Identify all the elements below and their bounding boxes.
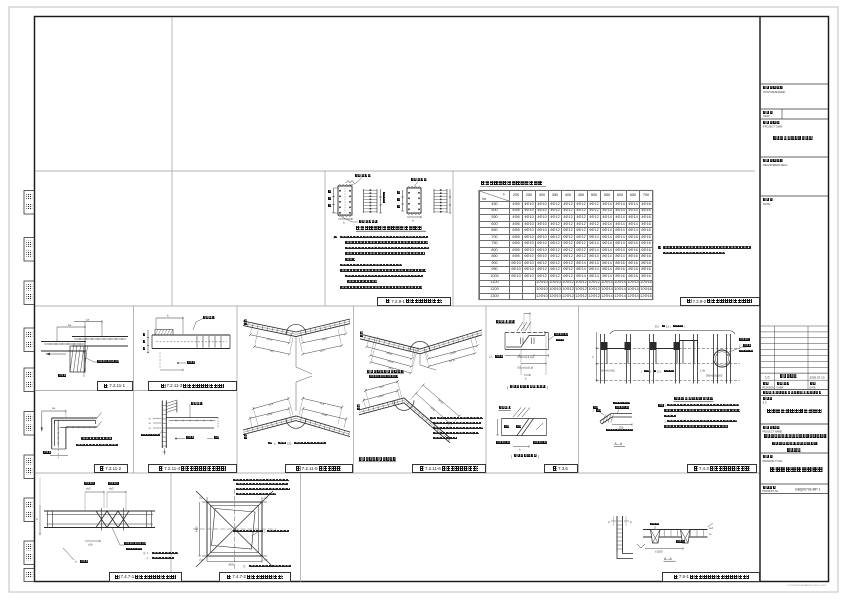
detail 7.5-1 wall section <box>616 516 618 552</box>
svg-text:(≥La): (≥La) <box>437 398 444 405</box>
grid vertical x=325 mid band <box>324 171 326 306</box>
1200 dim <box>645 548 683 550</box>
svg-text:La: La <box>86 317 90 321</box>
stirrups right part <box>196 336 198 348</box>
svg-text:A: A <box>630 520 632 524</box>
La dim top left <box>42 410 66 412</box>
dims above 7.4.7-1 <box>85 491 104 493</box>
top b dim <box>524 313 530 315</box>
svg-text:PROJECT OWN:: PROJECT OWN: <box>763 124 783 128</box>
panel 7.2.9-1 centered title underlined <box>356 230 426 232</box>
svg-text:(: ( <box>511 455 513 459</box>
hatch top right of wall <box>176 401 178 413</box>
left margin sign box 8 <box>24 498 35 522</box>
sub label lower underlined <box>359 461 397 463</box>
left margin sign box 3 <box>24 281 35 305</box>
left margin sign box 9 <box>24 541 35 565</box>
stair panel 7.2.11-6 upper valley chevron <box>360 330 482 349</box>
left margin sign box 2 <box>24 238 35 262</box>
svg-text:(: ( <box>507 386 509 390</box>
left label <box>158 430 164 435</box>
left margin sign box 10 <box>24 569 35 582</box>
svg-text:8-2: 8-2 <box>655 324 659 328</box>
svg-text:≥200: ≥200 <box>377 393 384 399</box>
svg-text:La: La <box>52 406 56 410</box>
grid vertical x=353 rows 1-2 <box>353 306 355 473</box>
first pour label underlined with hatch <box>496 323 515 325</box>
all-dims note line <box>761 394 829 396</box>
svg-text:b: b <box>412 219 414 223</box>
inner grid line horizontal y=171 <box>35 170 755 172</box>
svg-text:2.: 2. <box>147 557 149 560</box>
axis label and dashed centerline <box>57 446 59 460</box>
svg-text:A: A <box>727 353 729 357</box>
up-bent bars label underlined + hatch <box>499 409 512 411</box>
svg-text:2: 2 <box>593 410 595 413</box>
slab with anchors <box>643 529 708 531</box>
svg-text:≥200: ≥200 <box>386 351 393 356</box>
svg-text:≥200: ≥200 <box>321 336 328 341</box>
svg-text:(≥La): (≥La) <box>387 359 394 364</box>
svg-text:150: 150 <box>287 441 292 445</box>
svg-text:≥La: ≥La <box>268 401 274 406</box>
svg-text:≥Ld: ≥Ld <box>709 527 714 530</box>
svg-text:2: 2 <box>650 370 652 373</box>
left margin sign box 7 <box>24 455 35 479</box>
dims below upper detail <box>505 355 549 357</box>
right section left dims <box>402 190 404 211</box>
svg-text:La: La <box>68 323 72 327</box>
svg-text:4000: 4000 <box>196 526 199 532</box>
svg-text:L≥: L≥ <box>709 533 712 536</box>
leader from apex upper <box>295 337 297 367</box>
detail 7.2.11-4 wall with slab <box>161 401 163 449</box>
title block left edge <box>759 17 761 581</box>
panel 7.2.9-1 right beam section <box>407 188 421 213</box>
svg-text:≥200: ≥200 <box>266 337 273 342</box>
svg-text:1.4a: 1.4a <box>700 369 705 372</box>
label box 7.5-1 <box>662 572 760 582</box>
stair panel 7.2.11-5 upper valley chevron <box>243 319 350 332</box>
svg-text:50: 50 <box>149 423 152 425</box>
inner grid line horizontal y=390 left part <box>35 390 237 392</box>
7.4.3 A-A section lower left <box>600 414 632 422</box>
svg-text:≥h/2: ≥h/2 <box>86 488 91 491</box>
rebar configuration table <box>479 190 653 300</box>
dim b under left section <box>338 218 352 220</box>
leaders right of circle <box>729 347 742 352</box>
svg-text:DRAWING TITLE:: DRAWING TITLE: <box>763 460 783 463</box>
svg-text:注:: 注: <box>243 564 246 568</box>
top bar with hooks <box>55 419 96 421</box>
stair panel 7.2.11-6 lower peak chevron <box>359 398 450 438</box>
svg-text:500×(h/3)≥500: 500×(h/3)≥500 <box>706 374 723 377</box>
dim bottom 4000 <box>207 561 262 563</box>
svg-text:≥1200: ≥1200 <box>655 549 663 553</box>
leader top label <box>196 319 203 323</box>
left dim vertical 7.4.3 <box>596 332 598 382</box>
svg-text:b: b <box>167 313 169 317</box>
label box 7.2.11-1 <box>97 381 133 391</box>
svg-text:GBQ00703-MP-1: GBQ00703-MP-1 <box>795 487 821 491</box>
axis leader <box>63 548 74 560</box>
label top: beam top bars <box>356 178 362 184</box>
svg-text:2020.07.13: 2020.07.13 <box>810 375 825 379</box>
svg-text:A—A: A—A <box>664 557 672 561</box>
svg-text:A: A <box>608 520 610 524</box>
project name line 3 <box>761 452 829 454</box>
svg-text:50: 50 <box>149 428 152 430</box>
svg-text:): ) <box>547 386 548 390</box>
detail 7.2.11-2 inverted-L beam with wall drop <box>52 417 97 419</box>
svg-text:S.D: S.D <box>763 401 767 404</box>
group 2 table shape <box>654 348 680 350</box>
grid vertical x=171 bottom row <box>170 473 172 572</box>
wall inner bar <box>57 420 59 446</box>
svg-text:≥La: ≥La <box>320 348 326 353</box>
svg-text:b: b <box>525 377 527 381</box>
svg-text:h: h <box>593 355 595 359</box>
svg-text:DATE: DATE <box>810 386 817 389</box>
svg-text:(: ( <box>641 370 642 373</box>
end ticks <box>47 511 49 528</box>
dim lines above with La <box>57 326 85 328</box>
svg-text:300×(h/100): 300×(h/100) <box>601 369 615 372</box>
leader to longitudinal bars label <box>341 217 352 223</box>
left ladder diagram <box>363 189 365 213</box>
beam horizontal dashed lines <box>596 348 740 350</box>
svg-text:≥2h: ≥2h <box>88 542 93 546</box>
label box 7.2.9-2 <box>680 297 761 307</box>
svg-text:≥200: ≥200 <box>450 350 457 355</box>
svg-text:COPYRIGHT RESERVED 2020 CSCEC: COPYRIGHT RESERVED 2020 CSCEC <box>787 585 827 587</box>
svg-text:): ) <box>684 324 685 328</box>
left small dims <box>153 417 161 419</box>
detail 7.4.7-2 square opening <box>207 502 262 556</box>
bottom b dim upper detail <box>524 374 530 376</box>
svg-text:2: 2 <box>739 345 741 348</box>
sub label upper underlined <box>367 373 405 375</box>
grid vertical x=453 mid band <box>452 171 454 306</box>
detail 7.3.6 upper slab with bent bar <box>505 332 549 334</box>
wall bottom step <box>617 552 633 559</box>
svg-text:NOTE:: NOTE: <box>763 202 771 206</box>
label box 7.4.7-1 <box>109 572 182 582</box>
label box 7.2.9-1 <box>377 297 451 307</box>
svg-text:REGISTERED SEAL:: REGISTERED SEAL: <box>763 163 788 167</box>
table title underlined <box>481 181 543 185</box>
svg-text:1:1: 1:1 <box>489 356 493 359</box>
wall top dims A A <box>611 520 616 522</box>
svg-text:12 (: 12 ( <box>657 370 661 373</box>
label box 7.4.7-2 <box>219 572 291 582</box>
note right of table <box>658 246 661 248</box>
left vertical dim lower <box>497 419 499 435</box>
label box 7.2.11-5 <box>285 464 354 473</box>
label box 7.2.11-3 <box>148 381 237 391</box>
svg-text:(≥La): (≥La) <box>449 358 456 364</box>
svg-text:≥La: ≥La <box>379 384 385 389</box>
svg-text:b,: b, <box>75 561 77 564</box>
svg-text:≥200: ≥200 <box>266 411 273 416</box>
bottom leaders <box>175 438 177 440</box>
left margin sign box 4 <box>24 328 35 352</box>
anchor 1 <box>651 530 661 544</box>
X bracing center <box>96 511 107 528</box>
corner bar ticks <box>202 501 212 503</box>
A-A 200 dim <box>612 424 632 426</box>
svg-text:A: A <box>716 353 718 357</box>
svg-text:OVER: OVER <box>777 386 784 389</box>
svg-text:JOINT/DESIGNER:: JOINT/DESIGNER: <box>763 90 786 94</box>
grid vertical x=237 rows 1-2 <box>236 306 238 473</box>
bent bar in slab <box>506 336 545 348</box>
grid vertical x=133 rows 1-2 <box>133 306 135 473</box>
group 1 table shape <box>605 348 631 350</box>
panel 7.2.9-1 left beam section <box>338 186 352 215</box>
inner grid line vertical x=172 top band <box>171 17 173 306</box>
svg-text:≥h/2: ≥h/2 <box>109 488 114 491</box>
bar label <box>252 532 259 536</box>
svg-text:注: 1.: 注: 1. <box>143 551 149 555</box>
labels above anchors <box>654 526 656 530</box>
inside labels <box>536 423 543 430</box>
dim b under right section <box>407 216 421 218</box>
inner diamond bars <box>212 509 256 550</box>
svg-text:SIGN:: SIGN: <box>763 114 770 118</box>
svg-text:2: 2 <box>264 532 266 534</box>
svg-text:b: b <box>343 221 345 225</box>
group 3 pi shape <box>680 341 698 364</box>
detail 7.3.6 lower slab with cross bars <box>502 418 547 420</box>
svg-text:4000: 4000 <box>228 563 234 566</box>
svg-text:): ) <box>538 455 539 459</box>
label box 7.2.11-6 <box>412 464 486 473</box>
hatched block top-left <box>155 330 173 336</box>
dim left 4000 <box>199 502 201 556</box>
drawing title text <box>761 483 829 485</box>
axis label bottom <box>83 352 85 377</box>
cross diagonal bars <box>517 419 529 436</box>
detail 7.2.11-3 beam elevation <box>152 334 230 336</box>
svg-text:≥200: ≥200 <box>321 412 328 417</box>
grid vertical x=486 rows 1-2 <box>485 306 487 473</box>
7.4.3 beam pipes group lines <box>600 334 602 384</box>
svg-text:0.5Ln≥(Ld,La): 0.5Ln≥(Ld,La) <box>518 355 534 359</box>
svg-text:1.0: 1.0 <box>765 375 770 379</box>
below dims and leaders <box>85 540 100 542</box>
svg-text:a: a <box>274 442 276 445</box>
7.4.3 centered title underlined <box>674 400 714 402</box>
label above right section <box>414 182 418 187</box>
bottom labels lower detail <box>513 446 529 448</box>
label box 7.2.11-4 <box>148 464 237 473</box>
left margin sign box 6 <box>24 412 35 436</box>
design company name <box>761 423 829 425</box>
svg-text:12 (: 12 ( <box>666 324 671 328</box>
right ladder diagram <box>433 189 435 213</box>
svg-text:b: b <box>519 448 521 452</box>
left margin sign box 1 <box>24 191 35 215</box>
leader right end <box>97 413 102 419</box>
dims right of slab <box>708 523 714 527</box>
vertical drop hatch <box>70 346 85 372</box>
bars in beams <box>44 343 84 345</box>
label box 7.4.3 <box>687 464 757 473</box>
dims top and left <box>156 317 183 319</box>
svg-text:PROJECT No.: PROJECT No. <box>763 490 780 493</box>
svg-text:REVISION: REVISION <box>763 386 775 389</box>
svg-text:PROJECT NAME:: PROJECT NAME: <box>763 431 784 434</box>
title block row lines <box>761 83 829 85</box>
circle detail A <box>714 350 731 367</box>
svg-text:A—A: A—A <box>615 442 623 446</box>
grid vertical x=578 rows 1-2 <box>578 306 580 473</box>
svg-text:50: 50 <box>149 418 152 420</box>
slab double lines <box>166 417 218 419</box>
left dim b <box>39 505 41 534</box>
leader label right <box>86 358 94 362</box>
diagonals through corners <box>196 491 273 567</box>
anchor 2 <box>681 530 691 544</box>
break mark top left <box>346 181 354 184</box>
left section dims <box>333 188 335 213</box>
bottom labels <box>177 362 179 364</box>
label box 7.2.11-2 <box>94 464 128 473</box>
revision table <box>761 325 829 327</box>
svg-text:b: b <box>37 517 39 521</box>
svg-text:≥200: ≥200 <box>429 405 436 412</box>
leader to top label <box>189 404 191 418</box>
inner grid line horizontal y=306 <box>35 305 760 307</box>
svg-text:0.5Ln≥(Ld,La): 0.5Ln≥(Ld,La) <box>517 366 533 370</box>
table outer frame <box>479 190 653 299</box>
bottom bar with ticks <box>60 426 96 428</box>
detail 7.2.11-1 stepped beam <box>72 336 128 338</box>
inner grid line horizontal y=473 <box>35 472 760 474</box>
centerlines <box>193 528 276 530</box>
left margin sign box 5 <box>24 368 35 392</box>
stair panel 7.2.11-5 lower peak chevron <box>243 416 350 432</box>
detail 7.4.7-1 beam with X bracing <box>44 510 155 512</box>
grid vertical x=300 bottom row <box>300 473 302 582</box>
right leader labels <box>549 336 555 340</box>
dashes inside slab <box>520 338 522 345</box>
label box 7.3.6 <box>544 464 579 473</box>
